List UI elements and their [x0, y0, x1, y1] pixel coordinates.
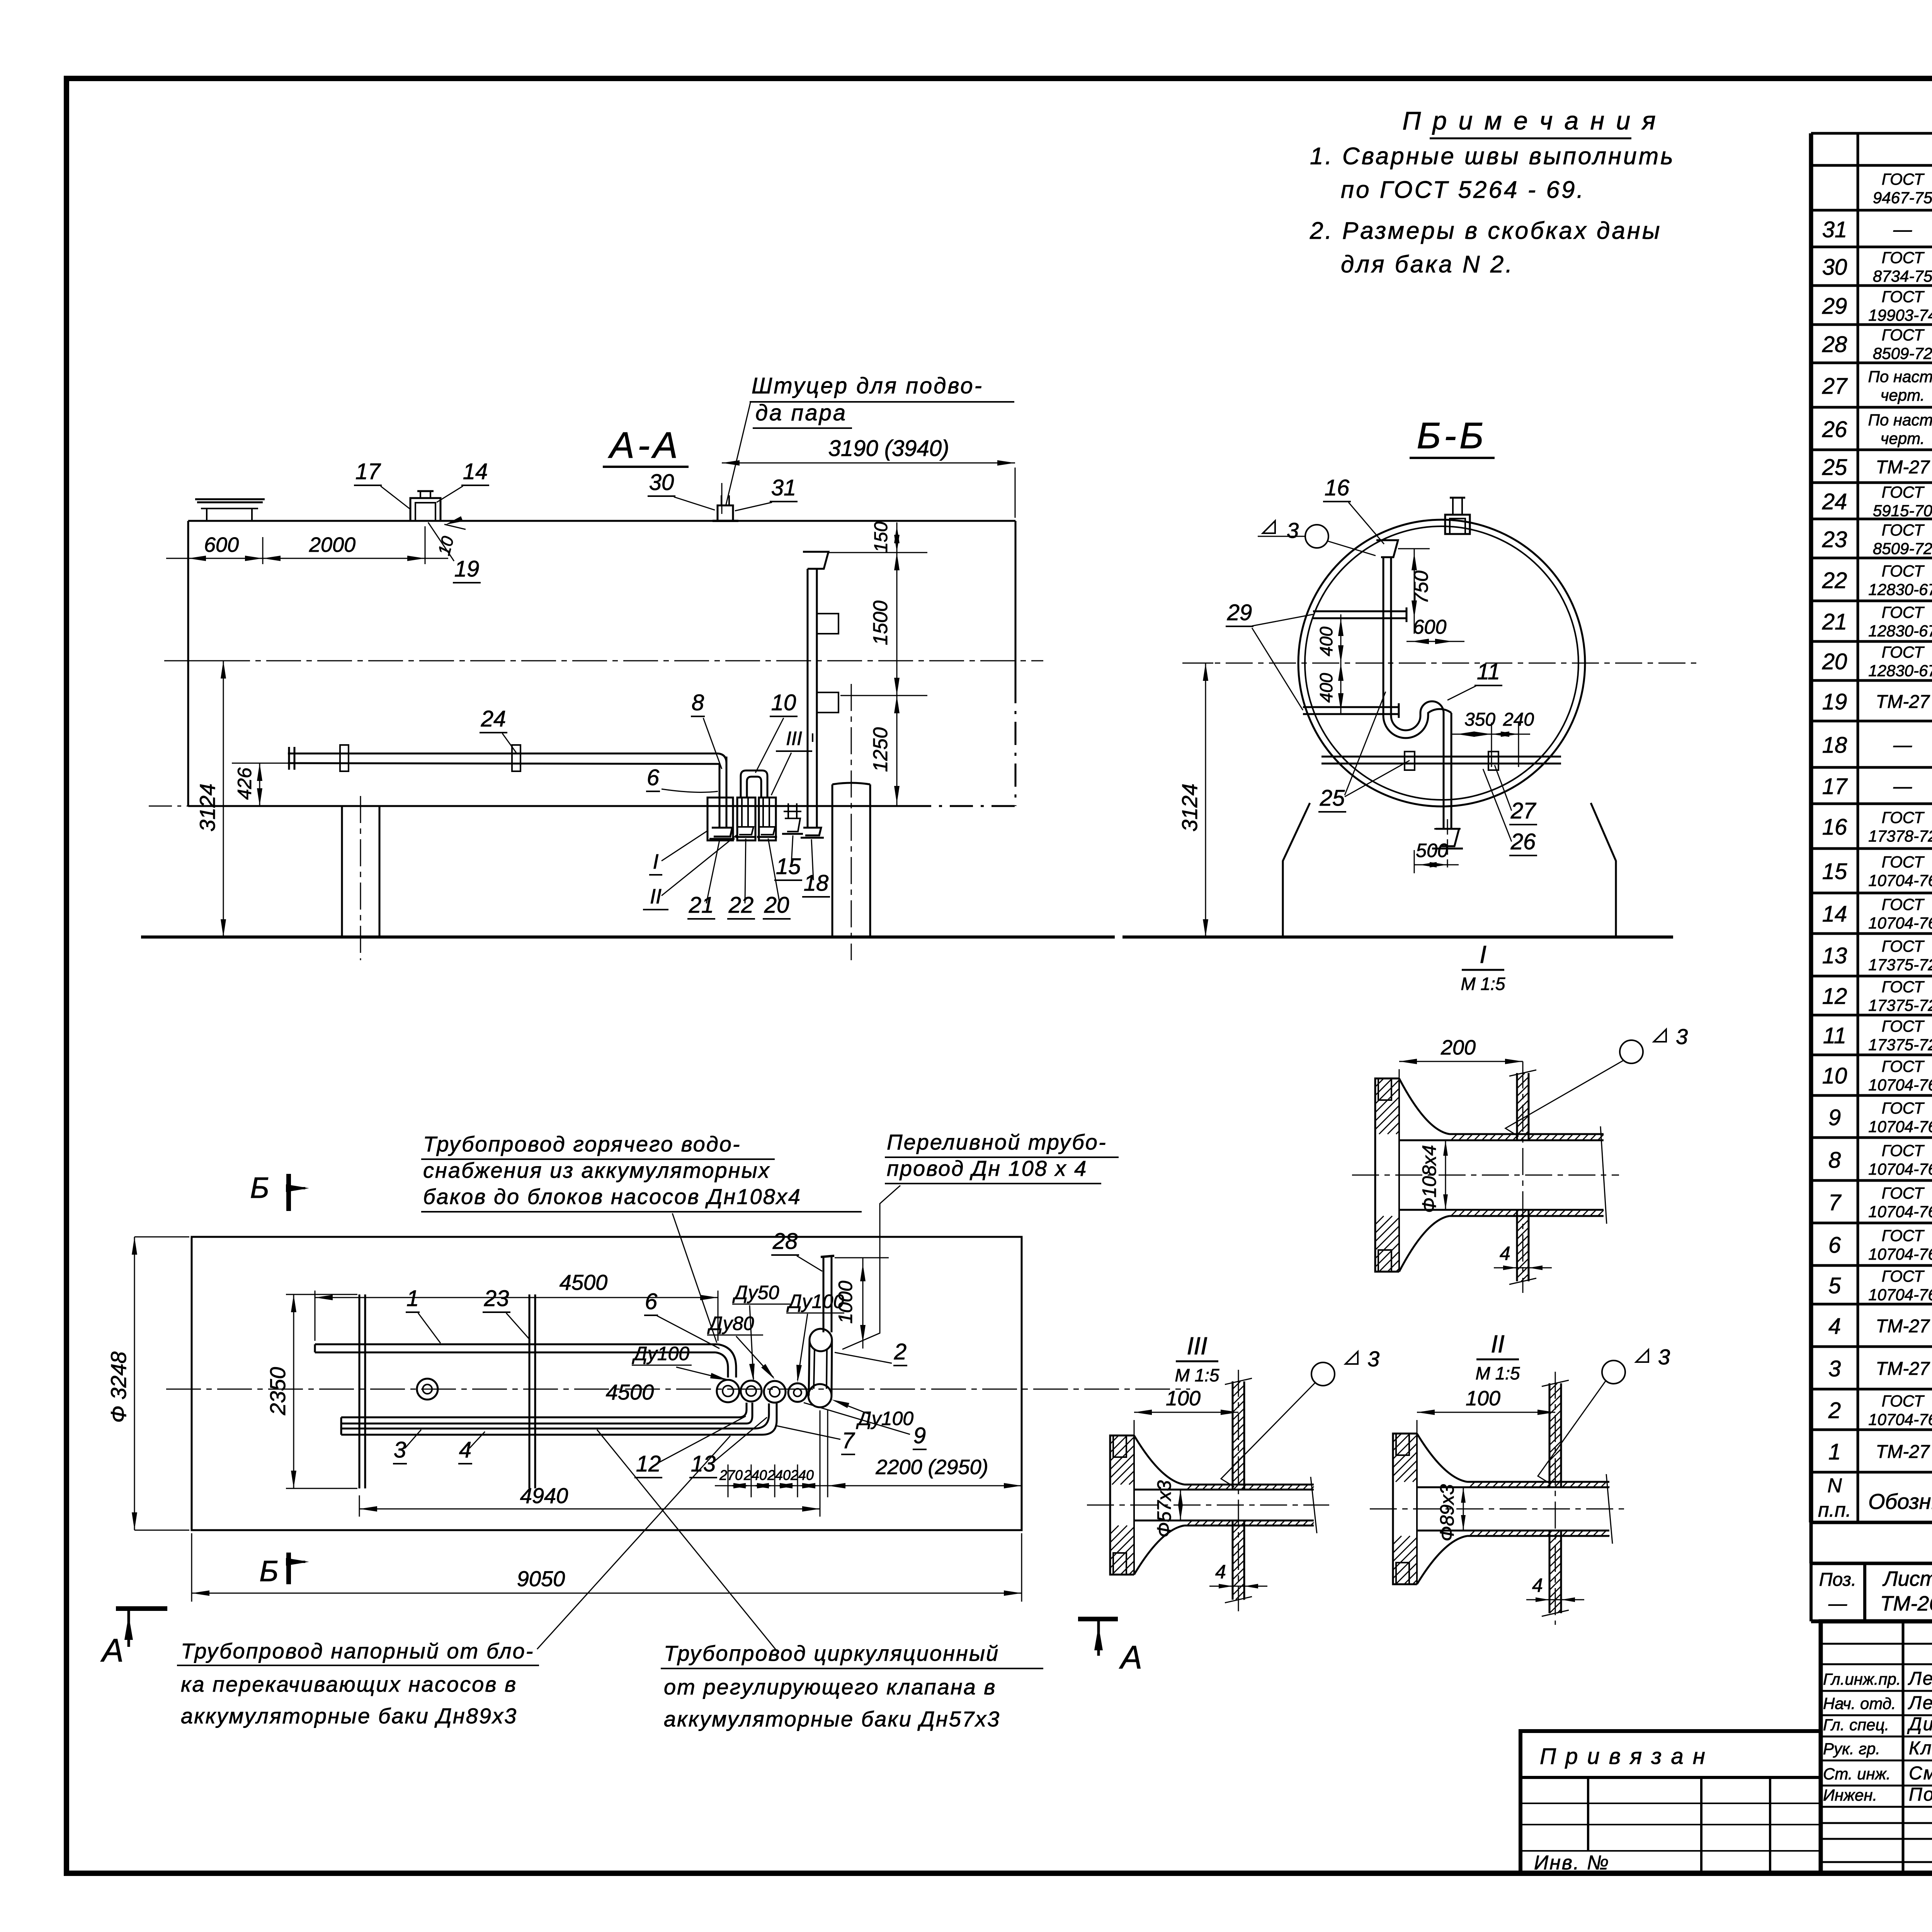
- svg-text:Смирнова: Смирнова: [1909, 1763, 1932, 1784]
- horizontal centerline Б-Б: [1182, 663, 1700, 664]
- svg-text:3124: 3124: [1177, 784, 1202, 832]
- steam stub poz.14/17 on tank top: [410, 498, 440, 521]
- svg-text:13: 13: [1822, 943, 1847, 968]
- svg-text:2000: 2000: [309, 533, 355, 556]
- svg-text:ГОСТ: ГОСТ: [1882, 248, 1925, 267]
- nozzle III funnel: [759, 827, 775, 835]
- leader pressure text to pipe: [537, 1436, 730, 1649]
- svg-text:12: 12: [636, 1451, 661, 1476]
- specification table grid: [1811, 132, 1932, 135]
- section marker Б top: [286, 1174, 291, 1211]
- svg-text:Б-Б: Б-Б: [1417, 415, 1487, 456]
- detail II neck and pipe walls: [1417, 1434, 1467, 1482]
- svg-text:9050: 9050: [517, 1566, 565, 1591]
- pipe clamps on overflow pipe: [817, 614, 838, 634]
- svg-text:28: 28: [772, 1229, 798, 1254]
- detail I flange: [1375, 1078, 1399, 1272]
- svg-text:28: 28: [1822, 332, 1847, 357]
- svg-text:10: 10: [771, 690, 796, 715]
- detail I dimension 200: [1399, 1069, 1400, 1078]
- svg-text:2200 (2950): 2200 (2950): [875, 1456, 988, 1479]
- pipe poz.24 elbow down to nozzle I: [719, 764, 721, 828]
- svg-text:4: 4: [1500, 1243, 1510, 1264]
- pos row grid: [1811, 1619, 1932, 1623]
- stub poz.30/31 on tank top: [718, 505, 733, 521]
- svg-text:3: 3: [1828, 1356, 1841, 1381]
- dimension 600 / 2000 top left: [188, 537, 189, 564]
- plan vertical plates poz.23: [359, 1294, 361, 1488]
- svg-text:II: II: [1491, 1330, 1505, 1358]
- bottom funnel of overflow pipe: [803, 828, 821, 835]
- svg-text:ТМ-27: ТМ-27: [1876, 1359, 1930, 1379]
- bottom tee and funnel Б-Б: [1434, 828, 1461, 830]
- svg-text:—: —: [1828, 1594, 1847, 1614]
- plan dim F3248: [134, 1237, 135, 1530]
- svg-text:29: 29: [1227, 600, 1252, 625]
- svg-text:10: 10: [1822, 1063, 1847, 1088]
- svg-text:Обозн.: Обозн.: [1868, 1489, 1932, 1514]
- plan drain circle: [417, 1379, 438, 1400]
- svg-text:17375-72: 17375-72: [1868, 956, 1932, 974]
- inner funnel pipe poz.16 Б-Б: [1376, 540, 1398, 557]
- tank circle Б-Б outer: [1298, 520, 1585, 806]
- svg-text:Лист: Лист: [1882, 1567, 1932, 1590]
- svg-text:3124: 3124: [195, 784, 219, 832]
- svg-text:12: 12: [1822, 984, 1847, 1009]
- svg-text:8: 8: [1828, 1148, 1841, 1173]
- nozzle I funnel: [712, 828, 732, 837]
- plan dim 9050: [191, 1533, 192, 1602]
- svg-text:12830-67: 12830-67: [1868, 580, 1932, 599]
- svg-text:Поздеева: Поздеева: [1909, 1784, 1932, 1805]
- svg-text:Ду100: Ду100: [786, 1291, 844, 1312]
- svg-text:ГОСТ: ГОСТ: [1882, 1184, 1925, 1202]
- svg-text:200: 200: [1440, 1036, 1476, 1059]
- detail III flange: [1110, 1435, 1134, 1575]
- svg-text:27: 27: [1510, 798, 1537, 823]
- svg-text:ГОСТ: ГОСТ: [1882, 853, 1925, 871]
- svg-text:31: 31: [771, 475, 796, 500]
- dimension 500 Б-Б: [1414, 850, 1415, 873]
- svg-text:4: 4: [1215, 1561, 1226, 1583]
- svg-text:Б: Б: [259, 1555, 278, 1588]
- svg-text:10704-76: 10704-76: [1868, 914, 1932, 932]
- svg-text:400: 400: [1316, 673, 1336, 702]
- svg-text:Левитан: Левитан: [1908, 1668, 1932, 1689]
- section marker A left: [116, 1606, 167, 1611]
- dimension 3124 left A-A: [166, 660, 226, 662]
- svg-text:III: III: [786, 728, 802, 749]
- detail III wall thickness dim 4: [1209, 1586, 1267, 1587]
- svg-text:Ду50: Ду50: [732, 1282, 779, 1303]
- plan dim 4500 top: [315, 1291, 316, 1341]
- svg-text:6: 6: [647, 765, 660, 790]
- svg-text:По наст.: По наст.: [1868, 367, 1932, 386]
- dimension 3124 Б-Б: [1182, 663, 1213, 664]
- plan dims 270 240 240 240: [728, 1464, 729, 1497]
- svg-text:29: 29: [1822, 294, 1847, 319]
- svg-text:Переливной трубо-: Переливной трубо-: [887, 1130, 1107, 1154]
- svg-text:17375-72: 17375-72: [1868, 1036, 1932, 1054]
- plan angle bracket poz.28: [823, 1257, 825, 1332]
- ground line A-A: [141, 935, 1115, 939]
- privyazan inner grid: [1587, 1777, 1589, 1851]
- svg-text:3190 (3940): 3190 (3940): [828, 436, 949, 461]
- svg-text:400: 400: [1316, 626, 1336, 656]
- svg-text:25: 25: [1320, 786, 1345, 811]
- svg-text:10704-76: 10704-76: [1868, 1245, 1932, 1263]
- dimension 3190 (3940) top: [721, 483, 723, 514]
- svg-text:Рук. гр.: Рук. гр.: [1823, 1740, 1880, 1758]
- detail III neck and pipe walls: [1134, 1435, 1184, 1485]
- svg-text:—: —: [1893, 776, 1912, 797]
- svg-text:16: 16: [1822, 815, 1847, 840]
- svg-text:240: 240: [743, 1467, 767, 1483]
- detail I neck and pipe walls: [1399, 1078, 1449, 1134]
- svg-text:12830-67: 12830-67: [1868, 662, 1932, 680]
- svg-text:1. Сварные швы выполнить: 1. Сварные швы выполнить: [1310, 143, 1675, 170]
- plan dim 2350: [286, 1294, 357, 1295]
- plan lower pipe elbows poz.12/13 up to flanges: [739, 1403, 747, 1417]
- svg-text:баков до блоков насосов Дн: баков до блоков насосов Дн108х4: [423, 1184, 801, 1209]
- svg-text:ГОСТ: ГОСТ: [1882, 170, 1925, 188]
- svg-text:Б: Б: [250, 1172, 269, 1204]
- P-pipe between nozzles II and III: [740, 776, 742, 798]
- svg-text:Ду80: Ду80: [707, 1313, 754, 1334]
- nozzle II funnel: [737, 827, 753, 835]
- dimensions 400 400 Б-Б: [1340, 614, 1342, 715]
- svg-text:А: А: [1119, 1639, 1142, 1675]
- svg-text:19: 19: [1822, 689, 1847, 714]
- detail I centerlines: [1352, 1175, 1619, 1176]
- svg-text:16: 16: [1325, 475, 1350, 500]
- svg-text:3: 3: [394, 1437, 406, 1463]
- svg-text:4500: 4500: [606, 1380, 654, 1404]
- svg-text:Штуцер для подво-: Штуцер для подво-: [752, 373, 983, 398]
- svg-text:снабжения из аккумуляторных: снабжения из аккумуляторных: [423, 1158, 770, 1182]
- svg-text:Ф89х3: Ф89х3: [1436, 1484, 1458, 1541]
- svg-text:ТМ-27: ТМ-27: [1876, 1316, 1930, 1337]
- tank outline A-A: [188, 520, 1015, 522]
- plan dim 2200 (2950): [827, 1410, 828, 1497]
- section marker Б bottom: [286, 1553, 291, 1584]
- svg-text:150: 150: [871, 522, 891, 553]
- svg-text:N: N: [1827, 1475, 1842, 1497]
- pedestal Б-Б: [1283, 803, 1310, 937]
- svg-text:18: 18: [804, 871, 829, 896]
- svg-text:ГОСТ: ГОСТ: [1882, 1057, 1925, 1075]
- svg-text:По наст.: По наст.: [1868, 411, 1932, 429]
- svg-text:6: 6: [1828, 1233, 1841, 1258]
- leader from steam text to stub 30/31: [726, 403, 750, 506]
- svg-text:100: 100: [1166, 1387, 1201, 1410]
- svg-text:15: 15: [1822, 859, 1847, 884]
- svg-text:10704-76: 10704-76: [1868, 1202, 1932, 1221]
- svg-text:350: 350: [1464, 709, 1495, 730]
- svg-text:31: 31: [1822, 217, 1847, 242]
- plan dim 1000: [862, 1258, 864, 1349]
- svg-text:2350: 2350: [265, 1367, 290, 1416]
- svg-text:ГОСТ: ГОСТ: [1882, 643, 1925, 661]
- svg-text:9: 9: [1828, 1105, 1841, 1130]
- svg-text:426: 426: [234, 767, 255, 800]
- svg-text:20: 20: [764, 893, 789, 918]
- svg-text:22: 22: [728, 893, 754, 918]
- small nozzle poz.15: [787, 803, 789, 818]
- svg-text:ГОСТ: ГОСТ: [1882, 483, 1925, 501]
- svg-text:Ду100: Ду100: [856, 1408, 913, 1429]
- svg-text:17: 17: [355, 459, 381, 484]
- leader overflow text to pipe: [842, 1185, 900, 1349]
- svg-text:3: 3: [1367, 1347, 1379, 1371]
- privyazan block frame: [1520, 1731, 1821, 1873]
- tank plan outline: [192, 1237, 1022, 1530]
- svg-text:Гл. спец.: Гл. спец.: [1823, 1716, 1889, 1734]
- top stub fitting Б-Б: [1445, 515, 1470, 534]
- svg-text:25: 25: [1822, 455, 1847, 480]
- svg-text:ГОСТ: ГОСТ: [1882, 1267, 1925, 1285]
- svg-text:ГОСТ: ГОСТ: [1882, 562, 1925, 580]
- svg-text:17378-72: 17378-72: [1868, 827, 1932, 845]
- U-trap poz.11: [1383, 716, 1428, 738]
- svg-text:от регулирующего клапана в: от регулирующего клапана в: [664, 1675, 997, 1699]
- svg-text:19903-74: 19903-74: [1868, 306, 1932, 324]
- svg-text:30: 30: [649, 470, 674, 495]
- svg-text:3: 3: [1287, 518, 1299, 543]
- svg-text:аккумуляторные баки Дн57х3: аккумуляторные баки Дн57х3: [664, 1707, 1000, 1731]
- svg-text:26: 26: [1510, 829, 1536, 854]
- detail I weld mark: [1620, 1040, 1643, 1063]
- svg-text:Поз.: Поз.: [1819, 1570, 1857, 1590]
- svg-text:ТМ-27: ТМ-27: [1876, 1442, 1930, 1462]
- tank circle Б-Б inner: [1305, 526, 1578, 800]
- svg-text:—: —: [1893, 219, 1912, 240]
- svg-text:7: 7: [1828, 1190, 1842, 1215]
- ground line Б-Б: [1122, 935, 1673, 939]
- svg-text:1: 1: [1828, 1439, 1841, 1464]
- svg-text:10704-76: 10704-76: [1868, 1410, 1932, 1429]
- svg-text:19: 19: [454, 556, 480, 582]
- dimension 10 at steam stub: [444, 524, 466, 529]
- svg-text:ГОСТ: ГОСТ: [1882, 937, 1925, 955]
- svg-text:24: 24: [481, 706, 506, 731]
- detail III weld mark: [1311, 1362, 1335, 1386]
- svg-text:ГОСТ: ГОСТ: [1882, 603, 1925, 621]
- overlay box poz.18 at nozzle I: [707, 798, 733, 840]
- svg-text:черт.: черт.: [1881, 429, 1925, 447]
- detail II branch pipe: [1549, 1383, 1551, 1487]
- svg-text:Клоков: Клоков: [1909, 1738, 1932, 1759]
- detail II centerlines: [1370, 1509, 1625, 1510]
- svg-text:8734-75: 8734-75: [1873, 267, 1932, 285]
- svg-text:21: 21: [1822, 609, 1847, 634]
- plan flange circles row: [717, 1380, 739, 1402]
- svg-text:ГОСТ: ГОСТ: [1882, 1226, 1925, 1245]
- svg-text:Гл.инж.пр.: Гл.инж.пр.: [1823, 1670, 1901, 1688]
- svg-text:4: 4: [1532, 1575, 1543, 1596]
- dimension 426 A-A: [232, 763, 294, 764]
- svg-text:I: I: [653, 850, 658, 873]
- svg-text:23: 23: [484, 1286, 509, 1311]
- svg-text:4940: 4940: [520, 1483, 568, 1508]
- horizontal pipe chord Б-Б: [1321, 756, 1561, 758]
- svg-text:15: 15: [776, 854, 801, 879]
- svg-text:ГОСТ: ГОСТ: [1882, 895, 1925, 913]
- overflow funnel and pipe poz.16 right: [803, 552, 828, 569]
- svg-text:Дигин: Дигин: [1907, 1714, 1932, 1735]
- plan pipe poz.1 upper: [315, 1344, 718, 1345]
- long perforated pipe poz.24 with clamps: [288, 753, 718, 755]
- detail I branch pipe: [1516, 1073, 1518, 1140]
- svg-text:III: III: [1187, 1332, 1207, 1360]
- specification title row side borders: [1810, 1522, 1813, 1563]
- tank bottom left chain extension: [149, 806, 188, 807]
- svg-text:А-А: А-А: [608, 425, 681, 466]
- svg-text:Трубопровод горячего водо-: Трубопровод горячего водо-: [423, 1132, 741, 1156]
- svg-text:30: 30: [1822, 255, 1847, 280]
- right support column A-A: [832, 784, 833, 937]
- svg-text:2: 2: [894, 1339, 906, 1364]
- svg-text:Инжен.: Инжен.: [1823, 1786, 1877, 1804]
- svg-text:Лепендин: Лепендин: [1908, 1693, 1932, 1713]
- svg-text:П р и в я з а н: П р и в я з а н: [1540, 1744, 1707, 1769]
- svg-text:Ф108х4: Ф108х4: [1418, 1145, 1440, 1213]
- svg-text:4: 4: [459, 1437, 471, 1463]
- svg-text:ТМ-27: ТМ-27: [1876, 692, 1930, 712]
- svg-text:Инв. №: Инв. №: [1534, 1852, 1610, 1874]
- svg-text:17375-72: 17375-72: [1868, 996, 1932, 1014]
- svg-text:9467-75: 9467-75: [1873, 189, 1932, 207]
- plan horizontal centerline: [166, 1389, 1190, 1390]
- svg-text:24: 24: [1822, 489, 1847, 514]
- svg-text:10704-76: 10704-76: [1868, 1076, 1932, 1094]
- right side dimensions 150 1500 1250: [828, 552, 927, 553]
- svg-text:ГОСТ: ГОСТ: [1882, 1099, 1925, 1117]
- svg-text:10704-76: 10704-76: [1868, 871, 1932, 889]
- svg-text:13: 13: [691, 1451, 716, 1476]
- svg-text:12830-67: 12830-67: [1868, 622, 1932, 640]
- svg-text:I: I: [1480, 940, 1486, 968]
- leader hot water text to pipe: [672, 1213, 717, 1343]
- svg-text:по ГОСТ 5264 - 69.: по ГОСТ 5264 - 69.: [1341, 177, 1585, 203]
- svg-text:7: 7: [842, 1428, 855, 1453]
- detail II dimension 100: [1417, 1420, 1418, 1434]
- svg-text:20: 20: [1822, 649, 1847, 674]
- dimension 600 Б-Б: [1406, 641, 1464, 642]
- leader circulation text to pipe: [597, 1430, 777, 1651]
- svg-text:для бака N 2.: для бака N 2.: [1341, 251, 1514, 278]
- svg-text:5915-70: 5915-70: [1873, 502, 1932, 520]
- svg-text:23: 23: [1822, 527, 1847, 552]
- svg-text:1250: 1250: [869, 727, 892, 772]
- svg-text:Трубопровод напорный от бло: Трубопровод напорный от бло-: [181, 1639, 534, 1663]
- svg-text:М 1:5: М 1:5: [1175, 1365, 1219, 1385]
- svg-text:М 1:5: М 1:5: [1475, 1363, 1520, 1383]
- tank horizontal centerline A-A: [164, 660, 1043, 662]
- svg-text:Нач. отд.: Нач. отд.: [1823, 1694, 1896, 1713]
- svg-text:11: 11: [1477, 659, 1500, 684]
- dimension 750 Б-Б: [1398, 548, 1430, 549]
- svg-text:ГОСТ: ГОСТ: [1882, 521, 1925, 539]
- svg-text:—: —: [1893, 735, 1912, 755]
- svg-text:27: 27: [1822, 374, 1848, 399]
- section marker A right: [1078, 1617, 1118, 1621]
- overlay box at nozzle III: [759, 798, 776, 840]
- detail II weld mark: [1602, 1361, 1625, 1384]
- svg-text:ГОСТ: ГОСТ: [1882, 1392, 1925, 1410]
- struts poz.29 Б-Б: [1313, 611, 1406, 612]
- svg-text:8509-72: 8509-72: [1873, 344, 1932, 362]
- svg-text:Ф57х3: Ф57х3: [1153, 1480, 1175, 1537]
- svg-text:ТМ-27: ТМ-27: [1876, 457, 1930, 478]
- svg-text:6: 6: [645, 1289, 658, 1314]
- weld mark triangle 3 Б-Б: [1263, 521, 1275, 533]
- overlay box at nozzle II: [737, 798, 755, 840]
- svg-text:10704-76: 10704-76: [1868, 1286, 1932, 1304]
- svg-text:черт.: черт.: [1881, 386, 1925, 404]
- svg-text:750: 750: [1410, 571, 1432, 604]
- svg-text:10704-76: 10704-76: [1868, 1160, 1932, 1178]
- svg-text:270: 270: [719, 1467, 743, 1483]
- svg-text:18: 18: [1822, 733, 1847, 758]
- svg-text:3: 3: [1658, 1345, 1670, 1369]
- detail III branch pipe: [1232, 1381, 1234, 1490]
- svg-text:3: 3: [1676, 1024, 1688, 1049]
- svg-text:провод Дн 108 х 4: провод Дн 108 х 4: [887, 1156, 1087, 1180]
- svg-text:100: 100: [1466, 1387, 1500, 1410]
- svg-text:А: А: [100, 1632, 124, 1668]
- svg-text:да пара: да пара: [755, 400, 847, 425]
- svg-text:ГОСТ: ГОСТ: [1882, 808, 1925, 827]
- svg-text:II: II: [650, 885, 662, 908]
- svg-text:8: 8: [692, 690, 704, 715]
- clamp marks on chord pipe: [1405, 752, 1415, 770]
- left support column A-A: [341, 806, 343, 937]
- detail II wall thickness dim 4: [1526, 1599, 1584, 1600]
- svg-text:2. Размеры в скобках даны: 2. Размеры в скобках даны: [1310, 218, 1662, 244]
- svg-text:4: 4: [1828, 1314, 1841, 1339]
- svg-text:1: 1: [406, 1286, 419, 1311]
- svg-text:240: 240: [790, 1467, 814, 1483]
- svg-text:ГОСТ: ГОСТ: [1882, 326, 1925, 344]
- svg-text:ка перекачивающих насосов в: ка перекачивающих насосов в: [181, 1672, 517, 1696]
- svg-text:Ст. инж.: Ст. инж.: [1823, 1765, 1891, 1783]
- svg-text:М 1:5: М 1:5: [1461, 974, 1505, 994]
- svg-text:500: 500: [1416, 840, 1448, 861]
- plate poz.19 on tank top (tarelka): [197, 502, 263, 503]
- svg-text:2: 2: [1828, 1398, 1841, 1423]
- svg-text:600: 600: [1413, 616, 1447, 638]
- detail III dimension 100: [1134, 1420, 1135, 1435]
- svg-text:8509-72: 8509-72: [1873, 539, 1932, 558]
- svg-text:240: 240: [767, 1467, 791, 1483]
- title block outer frame: [1821, 1621, 1932, 1873]
- svg-text:17: 17: [1822, 774, 1848, 799]
- plan pipe poz.1 elbow down to flange: [718, 1344, 736, 1378]
- svg-text:Ду100: Ду100: [632, 1343, 689, 1364]
- svg-text:14: 14: [463, 459, 488, 484]
- svg-text:ГОСТ: ГОСТ: [1882, 1141, 1925, 1160]
- svg-text:П р и м е ч а н и я: П р и м е ч а н и я: [1402, 106, 1658, 135]
- svg-text:ГОСТ: ГОСТ: [1882, 978, 1925, 996]
- detail I wall thickness dim 4: [1494, 1267, 1552, 1269]
- svg-text:9: 9: [913, 1423, 926, 1448]
- svg-text:п.п.: п.п.: [1818, 1499, 1851, 1521]
- svg-text:ТМ-26: ТМ-26: [1880, 1592, 1932, 1615]
- svg-text:14: 14: [1822, 901, 1847, 927]
- svg-text:Ф 3248: Ф 3248: [106, 1352, 131, 1423]
- svg-text:26: 26: [1822, 417, 1847, 442]
